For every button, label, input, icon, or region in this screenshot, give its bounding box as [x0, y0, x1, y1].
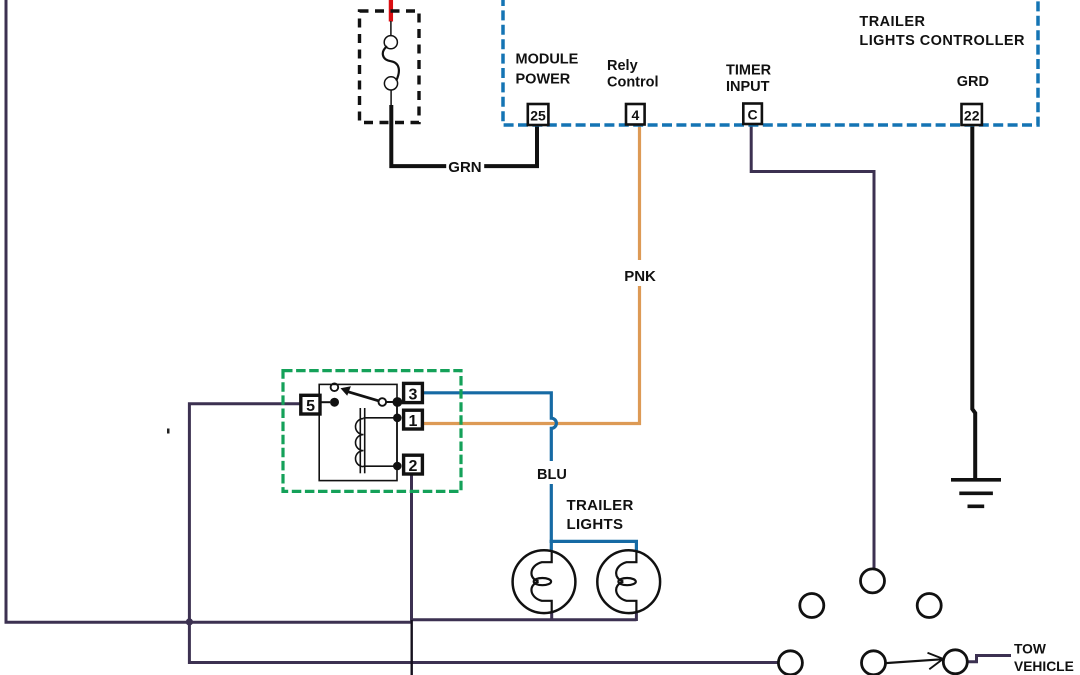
svg-text:MODULE: MODULE	[516, 51, 579, 67]
svg-text:TRAILER: TRAILER	[859, 14, 925, 30]
svg-text:2: 2	[409, 458, 418, 475]
svg-text:25: 25	[530, 108, 546, 124]
svg-text:GRD: GRD	[957, 74, 989, 90]
svg-text:LIGHTS: LIGHTS	[567, 516, 624, 533]
svg-text:BLU: BLU	[537, 467, 567, 483]
svg-text:22: 22	[964, 108, 980, 124]
svg-text:VEHICLE: VEHICLE	[1014, 659, 1074, 674]
svg-text:GRN: GRN	[448, 159, 481, 176]
svg-text:TIMER: TIMER	[726, 62, 772, 78]
svg-text:POWER: POWER	[516, 72, 571, 88]
svg-text:5: 5	[306, 398, 315, 415]
svg-text:4: 4	[632, 107, 640, 123]
svg-text:TRAILER: TRAILER	[567, 497, 634, 514]
svg-text:Control: Control	[607, 74, 659, 90]
svg-text:INPUT: INPUT	[726, 79, 770, 95]
svg-text:Rely: Rely	[607, 58, 638, 74]
svg-text:PNK: PNK	[624, 268, 656, 285]
svg-text:1: 1	[409, 413, 418, 430]
svg-text:C: C	[748, 107, 758, 123]
svg-text:LIGHTS CONTROLLER: LIGHTS CONTROLLER	[859, 33, 1025, 49]
svg-text:3: 3	[409, 386, 418, 403]
svg-text:TOW: TOW	[1014, 641, 1047, 656]
